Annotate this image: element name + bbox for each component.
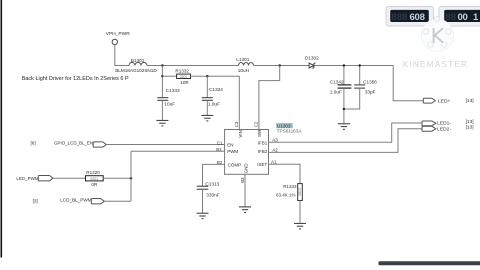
svg-text:GPIO_LCD_BL_EN: GPIO_LCD_BL_EN xyxy=(54,141,93,146)
svg-text:LED+: LED+ xyxy=(438,99,451,105)
svg-text:1: 1 xyxy=(473,12,479,23)
wire junction drop xyxy=(161,66,163,98)
pin label A1 xyxy=(271,160,277,165)
op-amp U1303 IC box xyxy=(225,129,269,174)
svg-text:10uH: 10uH xyxy=(238,68,249,73)
ground xyxy=(239,207,251,213)
svg-text:10R: 10R xyxy=(180,80,189,85)
junction xyxy=(279,64,281,66)
junction xyxy=(343,108,345,110)
junction xyxy=(343,64,345,66)
svg-text:EN: EN xyxy=(227,142,233,147)
svg-text:VPH_PWR: VPH_PWR xyxy=(106,31,131,37)
pin label B2 xyxy=(217,160,223,165)
svg-text:LED_PWM: LED_PWM xyxy=(16,176,39,181)
svg-text:C3: C3 xyxy=(234,121,239,127)
capacitor C1313 xyxy=(197,181,220,213)
svg-text:[13]: [13] xyxy=(466,125,474,131)
wire LCD_BL_PWM xyxy=(104,200,131,202)
IC designator U1303 highlighted xyxy=(276,123,302,134)
svg-text:LCD_BL_PWM: LCD_BL_PWM xyxy=(60,198,92,203)
svg-text:TPS61163A: TPS61163A xyxy=(277,129,303,134)
resistor R1333 xyxy=(276,184,302,224)
junction xyxy=(161,75,163,77)
svg-text:L1301: L1301 xyxy=(236,57,249,62)
display shadow xyxy=(388,26,480,27)
svg-text:IFB1: IFB1 xyxy=(258,141,268,146)
svg-text:608: 608 xyxy=(410,12,426,23)
svg-text:33pF: 33pF xyxy=(365,90,376,95)
svg-text:C1356: C1356 xyxy=(363,80,377,85)
svg-text:BLM18AG102SN1D: BLM18AG102SN1D xyxy=(115,68,157,73)
capacitor C1342 xyxy=(330,66,352,124)
svg-text:LED2-: LED2- xyxy=(437,127,451,133)
svg-text:KINEMASTER: KINEMASTER xyxy=(403,60,469,69)
ground xyxy=(338,124,350,130)
diode D1302 xyxy=(305,56,319,68)
svg-text:D1302: D1302 xyxy=(305,56,319,61)
wire IC GND xyxy=(244,174,246,207)
svg-text:[6]: [6] xyxy=(31,141,36,146)
svg-text:63.4K 1%: 63.4K 1% xyxy=(276,193,296,198)
watermark kinemaster reel logo xyxy=(421,16,453,51)
svg-text:88: 88 xyxy=(446,12,457,23)
wire to LED+ xyxy=(393,66,423,101)
ground xyxy=(197,213,209,219)
capacitor C1324 xyxy=(202,76,224,115)
net tag GPIO_LCD_BL_EN xyxy=(31,141,107,148)
junction xyxy=(130,177,133,180)
watermark KINEMASTER text xyxy=(403,60,469,69)
capacitor C1333 xyxy=(157,88,180,120)
svg-text:B1: B1 xyxy=(216,147,222,152)
video progress bar xyxy=(379,261,480,265)
junction xyxy=(161,64,163,66)
svg-text:IFB2: IFB2 xyxy=(258,149,268,154)
wire R1332 to VIN xyxy=(191,76,240,129)
svg-text:[13]: [13] xyxy=(466,119,474,125)
wire IFB1 to LED1- xyxy=(269,123,423,142)
svg-text:GND: GND xyxy=(243,163,248,174)
svg-text:R1333: R1333 xyxy=(283,184,297,189)
svg-text:[3]: [3] xyxy=(33,199,38,204)
pin label C1 xyxy=(217,140,223,145)
svg-text:0201: 0201 xyxy=(180,75,188,79)
wire rail after L1301 xyxy=(254,65,309,67)
wire ISET xyxy=(269,164,301,183)
inductor L1301 xyxy=(236,57,253,73)
wire COMP xyxy=(203,164,225,186)
capacitor C1356 xyxy=(344,66,377,110)
svg-text:C1: C1 xyxy=(217,140,223,145)
pin label B1 xyxy=(216,147,222,152)
svg-text:VIN: VIN xyxy=(238,130,243,138)
page edge line xyxy=(0,0,2,258)
svg-text:C1324: C1324 xyxy=(209,87,223,92)
wire R1320 to junction xyxy=(103,177,131,179)
wire PWM vertical xyxy=(130,151,132,201)
wire EN xyxy=(106,144,224,146)
junction xyxy=(206,75,208,77)
svg-text:PWM: PWM xyxy=(227,149,238,154)
wire SW jog xyxy=(259,66,280,130)
net tag LED_PWM xyxy=(16,176,53,182)
ground xyxy=(156,120,168,126)
pin label A3 xyxy=(272,138,278,143)
wire VPH_PWR down xyxy=(115,45,129,66)
svg-text:COMP: COMP xyxy=(228,162,242,167)
wire rail A xyxy=(147,65,239,67)
svg-text:00: 00 xyxy=(458,12,468,23)
svg-text:ISET: ISET xyxy=(257,162,267,167)
net tag LED2- xyxy=(422,125,474,133)
junction xyxy=(359,64,361,66)
svg-text:0603: 0603 xyxy=(298,188,302,196)
timer display right housing xyxy=(439,7,480,26)
svg-text:10uF: 10uF xyxy=(164,101,175,106)
resistor R1332 xyxy=(162,69,190,85)
svg-text:C2: C2 xyxy=(253,121,258,127)
svg-text:0R: 0R xyxy=(91,182,98,187)
svg-text:888: 888 xyxy=(392,12,409,23)
svg-text:C1342: C1342 xyxy=(330,80,344,85)
svg-text:330nF: 330nF xyxy=(206,193,219,198)
resistor R1320 xyxy=(86,170,104,187)
wire after diode xyxy=(315,65,394,67)
pin label A2 xyxy=(272,148,278,153)
wire LED_PWM to R1320 xyxy=(53,177,86,179)
pin label B3 xyxy=(240,177,245,183)
net tag LED+ xyxy=(423,98,473,105)
svg-text:[13]: [13] xyxy=(466,98,474,104)
svg-text:B3: B3 xyxy=(240,177,245,183)
wire PWM to IC xyxy=(131,150,225,152)
svg-text:R1320: R1320 xyxy=(86,170,100,175)
pin label C3 xyxy=(234,121,239,127)
svg-text:0201: 0201 xyxy=(90,177,98,181)
svg-text:SW: SW xyxy=(257,129,262,137)
node VPH_PWR xyxy=(106,31,131,45)
svg-text:U1303: U1303 xyxy=(277,123,291,128)
svg-text:LED1-: LED1- xyxy=(437,120,451,126)
pin label C2 xyxy=(253,121,258,127)
svg-text:1.0uF: 1.0uF xyxy=(330,90,342,95)
ground xyxy=(294,223,306,229)
svg-text:C1313: C1313 xyxy=(205,181,219,186)
svg-text:1.0uF: 1.0uF xyxy=(208,101,220,106)
ground xyxy=(201,115,213,121)
title text xyxy=(22,76,129,82)
svg-text:C1333: C1333 xyxy=(166,88,180,93)
wire IFB2 to LED2- xyxy=(269,129,423,153)
svg-text:R1332: R1332 xyxy=(175,69,189,74)
svg-text:Back Light Driver for 12LEDs I: Back Light Driver for 12LEDs In 2Series … xyxy=(22,76,129,82)
net tag LCD_BL_PWM xyxy=(33,198,105,204)
timer display left housing xyxy=(386,7,434,26)
ferrite bead B1301 xyxy=(115,58,157,73)
net tag LED1- xyxy=(422,119,474,126)
